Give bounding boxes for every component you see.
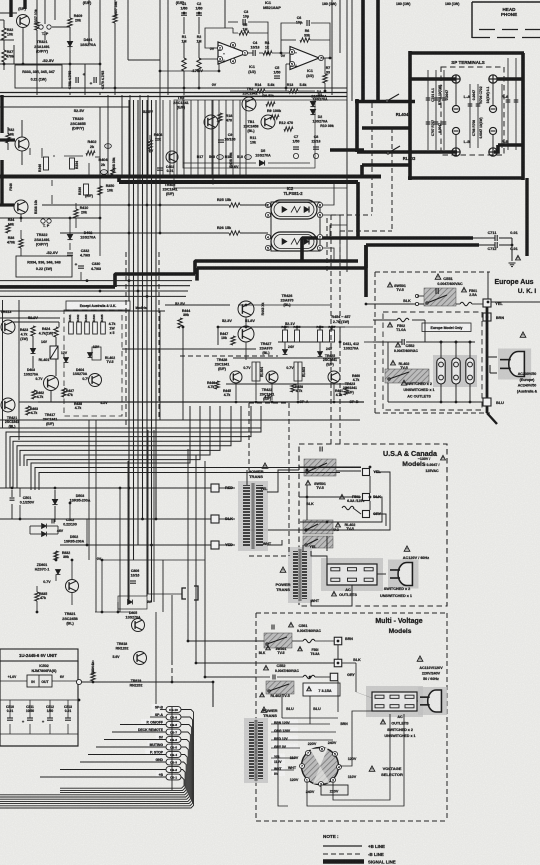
wire xyxy=(333,383,335,400)
wire bus vertical x147 xyxy=(146,100,148,596)
wire outlet 3 return xyxy=(469,384,471,402)
capacitor C551 usa xyxy=(320,447,322,452)
connector pin CB-6 xyxy=(166,737,181,743)
wire xyxy=(256,676,270,678)
warning F501 xyxy=(462,287,467,292)
wire R-B terminal link xyxy=(492,135,494,148)
diode D402 xyxy=(67,234,72,239)
wire hook CB-7 xyxy=(0,732,190,801)
junction xyxy=(128,487,131,490)
wire F502 out xyxy=(412,319,425,321)
junction xyxy=(183,87,186,90)
wire tl x89 xyxy=(88,0,90,45)
label tap YEL xyxy=(272,754,285,759)
resistor R402 xyxy=(86,151,95,155)
capacitor xyxy=(7,718,13,720)
selector pin 7 xyxy=(306,751,311,756)
wire xyxy=(218,64,220,71)
capacitor sp col x508 xyxy=(506,100,511,102)
wire cluster rail y358 xyxy=(233,357,340,359)
wire section divider lower xyxy=(0,96,347,98)
wire xyxy=(321,57,330,59)
wire outlet 2 feed xyxy=(455,342,457,358)
thick left edge bar2 xyxy=(0,160,3,206)
AC outlet europe 2 xyxy=(452,358,460,384)
resistor R336 box xyxy=(84,184,89,195)
wire under R444 xyxy=(182,328,184,420)
wire t2 to outlets xyxy=(311,551,327,564)
wire sp column x516 xyxy=(515,58,517,150)
resistor R38 xyxy=(19,239,23,248)
capacitor C552 xyxy=(402,339,404,345)
speaker terminal L-A - xyxy=(452,105,459,112)
wire xyxy=(183,71,185,95)
wire tap GRY xyxy=(271,747,300,749)
wire outlets feed multi xyxy=(355,663,357,692)
wire RL402 to bottom rail xyxy=(387,383,389,402)
pin 2 xyxy=(317,234,322,239)
warning power trans 3 xyxy=(261,707,267,712)
wire hook CB-10 xyxy=(0,710,194,809)
wire xyxy=(47,533,58,535)
warning C561 xyxy=(289,622,294,627)
wire signal mid bar xyxy=(362,163,410,167)
wire -52.5 rail xyxy=(0,63,60,65)
terminal YEL usa xyxy=(363,469,370,476)
wire v x148 lower xyxy=(147,430,149,594)
wire sp column x436 xyxy=(435,70,437,150)
headphone box left edge xyxy=(471,2,473,38)
wire zener down xyxy=(32,356,34,368)
capacitor C1 xyxy=(181,13,187,15)
junction xyxy=(255,401,258,404)
junction xyxy=(114,87,117,90)
wire xyxy=(70,106,130,108)
transistor TR422 xyxy=(266,371,278,383)
wire vertical x332 xyxy=(331,0,333,95)
dashed -B v x372 xyxy=(371,103,373,215)
relay coil RL404 xyxy=(252,362,260,381)
wire R-B drop xyxy=(494,145,498,152)
resistor R446 xyxy=(215,381,219,389)
switch SW501 contact xyxy=(426,295,447,304)
pin 1 xyxy=(242,50,247,55)
speaker terminal L-B + xyxy=(452,148,460,156)
wire C552 row right xyxy=(406,341,475,343)
wire xyxy=(69,218,71,234)
wire fan Z 8 xyxy=(31,406,190,490)
resistor R834 xyxy=(91,672,95,681)
optocoupler IC2a xyxy=(271,200,317,219)
wire xyxy=(47,525,58,527)
wire RED to T1 xyxy=(219,487,235,489)
resistor R7 xyxy=(323,74,327,83)
diode D503 xyxy=(52,499,57,504)
transistor TR322b xyxy=(14,200,28,214)
test point marks 2 xyxy=(41,219,51,223)
pin 5 xyxy=(265,245,270,250)
switch SW301 block xyxy=(264,633,292,648)
transistor TR423 xyxy=(328,371,340,383)
relay driver dashed box xyxy=(64,310,122,416)
label P. ON/OFF xyxy=(141,719,164,724)
wire t1 wht out xyxy=(267,540,282,545)
wire xyxy=(29,526,31,534)
wire xyxy=(64,155,83,157)
wire xyxy=(319,327,321,330)
junction x12 RED rail xyxy=(11,487,14,490)
selector pin 7 xyxy=(300,764,305,769)
wire to plug a xyxy=(487,356,497,358)
junction xyxy=(469,401,472,404)
SP terminals dashed box xyxy=(441,67,504,155)
wire tl y27b xyxy=(52,26,70,28)
resistor R4 xyxy=(263,51,272,55)
selector pin 3 xyxy=(331,778,336,783)
wire xyxy=(41,148,43,158)
junction xyxy=(159,70,162,73)
junction xyxy=(101,559,104,562)
label tap GRY 0V xyxy=(272,743,298,749)
6V unit header box xyxy=(0,649,78,661)
wire SW501 to F501 xyxy=(456,303,460,305)
wire gry down multi xyxy=(337,681,339,712)
wire R424 to coil xyxy=(55,337,57,346)
diode D401 xyxy=(67,41,72,46)
capacitor sp col x444 xyxy=(442,98,447,100)
wire xyxy=(22,28,24,64)
wire long signal line L2 xyxy=(119,180,358,184)
wire into CB-5 xyxy=(96,746,166,748)
wire xyxy=(19,505,21,519)
power transformer T3 (Multi) xyxy=(244,718,268,783)
Europe models dashed box left xyxy=(374,272,376,413)
transistor TR428 xyxy=(230,371,242,383)
junction xyxy=(146,295,149,298)
wire xyxy=(245,317,247,326)
junction xyxy=(86,279,89,282)
speaker terminal R-A + xyxy=(489,75,497,83)
wire usa yel row xyxy=(299,466,361,468)
wire signal step at x119 xyxy=(117,176,121,182)
wire D503 down xyxy=(54,506,56,522)
wire outlet 1 feed xyxy=(440,342,442,358)
wire xyxy=(69,503,71,519)
wire v x163 xyxy=(162,560,164,612)
resistor R406 xyxy=(148,140,152,149)
warning RL402 multi xyxy=(260,693,265,697)
junction xyxy=(235,401,238,404)
wire xyxy=(36,30,38,95)
dashed -B v x331 xyxy=(330,215,332,444)
voltage selector body xyxy=(302,748,339,785)
wire BRN down xyxy=(337,645,339,659)
wire xyxy=(3,62,5,70)
AC outlets USA xyxy=(321,558,383,591)
wire vertical x100 mid xyxy=(99,107,101,176)
wire long vertical border x347 xyxy=(346,0,348,272)
wire sp column x478 xyxy=(477,84,479,148)
wire signal step x197 xyxy=(195,268,199,281)
transistor TR426 xyxy=(238,301,254,317)
wire v x128 lower xyxy=(127,461,129,602)
wire signal bar to C712 xyxy=(366,243,479,247)
diode D805 xyxy=(128,600,133,605)
wire R26 row xyxy=(60,232,229,234)
test point marks xyxy=(39,25,51,29)
wire usa gry loop xyxy=(374,514,386,526)
wire L-B bar xyxy=(357,150,457,154)
transistor TR402a xyxy=(166,151,178,163)
warning F501 multi xyxy=(298,647,303,651)
wire thick stub TR319 b xyxy=(23,0,26,9)
junction xyxy=(146,204,149,207)
wire BLK feed to SW501 xyxy=(366,303,424,305)
wire cap 30 top xyxy=(29,700,31,718)
junction xyxy=(306,469,309,472)
wire xyxy=(29,148,31,155)
Multi-Voltage dashed box left xyxy=(255,613,257,821)
wire signal bar y274 xyxy=(115,272,195,276)
connector pins europe inlet xyxy=(415,294,418,305)
wire usa rl402 to T2 xyxy=(326,536,328,551)
wire signal line vertical trunk 2 xyxy=(376,0,380,101)
junction xyxy=(369,496,372,499)
resistor R5 xyxy=(239,31,249,35)
wire comb x233 xyxy=(232,100,234,176)
wire 6V down to CB xyxy=(212,682,214,707)
resistor R408 xyxy=(111,168,115,178)
wire to C711 xyxy=(473,237,495,239)
junction xyxy=(71,559,74,562)
label 6V xyxy=(156,734,164,739)
resistor R12 xyxy=(284,127,293,131)
capacitor xyxy=(65,718,71,720)
junction xyxy=(369,466,372,469)
warning C551 usa xyxy=(441,455,446,460)
resistor R334 box xyxy=(70,158,75,169)
wire tap BRN xyxy=(271,723,330,725)
wire x12 to C501 xyxy=(11,490,13,497)
wire YED to T1 xyxy=(219,544,235,546)
wire trans bottom loop xyxy=(278,724,288,806)
wire fan Z 7 xyxy=(27,406,200,466)
terminal YEL xyxy=(483,299,491,307)
wire bus vertical x156 xyxy=(155,100,157,519)
junction xyxy=(329,57,332,60)
wire xyxy=(55,575,57,581)
junction xyxy=(326,521,329,524)
resistor R350 xyxy=(98,186,102,195)
speaker terminal L-B - xyxy=(452,127,459,134)
resistor R25 xyxy=(229,203,240,207)
wire xyxy=(21,151,23,165)
capacitor C501 xyxy=(10,498,15,500)
connector pin CB-4 xyxy=(166,752,181,758)
wire rail y218 xyxy=(0,217,100,219)
wire bus vertical x142.5 xyxy=(142,100,144,519)
wire xyxy=(69,92,71,95)
wire SP bottom bar xyxy=(408,176,524,180)
wire xyxy=(71,560,73,579)
junction xyxy=(455,341,458,344)
dashed -B bus x159 xyxy=(158,252,160,420)
wire reg in xyxy=(0,680,27,682)
wire xyxy=(281,39,296,41)
terminal GRY usa xyxy=(363,511,370,518)
resistor group box R333 xyxy=(15,65,62,88)
wire cap 10 bot xyxy=(9,724,11,734)
wire R834 top xyxy=(92,660,94,672)
wire xyxy=(99,0,101,85)
junction xyxy=(245,304,248,307)
wire outlet 1 return xyxy=(440,384,442,402)
resistor R37 xyxy=(2,50,6,62)
wire xyxy=(245,342,247,360)
resistor R432 box xyxy=(77,322,82,334)
wire fb2 top xyxy=(281,23,303,53)
transistor TR413 xyxy=(1,320,15,334)
junction xyxy=(469,341,472,344)
wire R-A bar xyxy=(497,77,524,81)
wire signal line vertical trunk 1 xyxy=(361,0,365,101)
Multi-Voltage dashed box bottom xyxy=(256,820,447,822)
wire blu to tap xyxy=(309,718,311,724)
relay RL402 block xyxy=(385,369,429,383)
connector pin CB-7 xyxy=(166,729,181,735)
wire to C552 row xyxy=(364,341,373,343)
warning power trans 2 xyxy=(280,567,286,572)
wire 52.1V rail xyxy=(218,326,345,328)
junction xyxy=(150,544,153,547)
selector pin 4 xyxy=(337,765,342,770)
Multi-Voltage dashed box right xyxy=(446,613,448,821)
resistor R409 xyxy=(68,18,72,27)
wire rail y285 xyxy=(0,285,190,287)
warning SW501 xyxy=(388,282,393,287)
wire RL403 coil feed xyxy=(297,362,299,381)
capacitor sp col x516 xyxy=(514,100,519,102)
capacitor C712 xyxy=(495,242,497,248)
wire section divider upper xyxy=(0,92,347,94)
connector pin CB-3 xyxy=(166,759,181,765)
legend +B line sample xyxy=(323,845,362,847)
transistor TR418 xyxy=(89,374,102,387)
relay coil RL401 xyxy=(92,347,101,360)
wire RED rail xyxy=(0,487,211,489)
wire xyxy=(255,381,257,400)
junction xyxy=(187,640,190,643)
resistor R457 box xyxy=(330,330,335,342)
junction xyxy=(22,63,25,66)
wire mains to multi sw xyxy=(188,449,264,641)
junction xyxy=(128,204,131,207)
wire fb2 right xyxy=(311,23,330,58)
wire signal vertical to staircase xyxy=(356,182,360,238)
wire sw to fuse multi xyxy=(292,640,303,642)
transistor TR421 xyxy=(1,398,15,412)
wire tl x14c xyxy=(13,45,15,64)
junction circle IC502 out xyxy=(76,679,81,684)
wire v x19 xyxy=(18,300,20,440)
wire xyxy=(117,602,119,612)
warning RL402 usa xyxy=(336,522,341,527)
capacitor C6 xyxy=(307,20,309,26)
capacitor C8 xyxy=(313,147,319,149)
wire hook CB-5 xyxy=(0,747,188,797)
wire sp column x444 xyxy=(443,70,445,150)
wire mains to multi gry xyxy=(205,461,256,677)
wire R834 bottom xyxy=(92,681,94,682)
terminal BRN xyxy=(483,313,491,321)
wire signal step x302 xyxy=(300,238,304,261)
wire caps bottom rail xyxy=(0,733,78,735)
wire BLK to T1 xyxy=(219,518,235,520)
fuse T3.15A xyxy=(303,675,315,678)
junction xyxy=(171,681,174,684)
wire xyxy=(277,676,303,678)
junction xyxy=(284,326,287,329)
wire left stub 2 xyxy=(0,39,14,41)
capacitor C4 xyxy=(253,50,255,56)
resistor R832 xyxy=(54,551,58,560)
wire fan Z 5 xyxy=(20,406,220,466)
wire xyxy=(95,156,100,158)
wire 6V out rail xyxy=(82,681,213,683)
wire sp column x508 xyxy=(507,58,509,150)
resistor R434 box xyxy=(93,322,98,334)
junction xyxy=(324,90,327,93)
capacitor C502 xyxy=(52,519,54,524)
wire signal bar y287 xyxy=(0,285,115,289)
wire xyxy=(198,8,200,9)
warning power trans 1 xyxy=(262,463,268,468)
wire F501 to YEL term xyxy=(472,303,483,305)
fuse F501 usa xyxy=(342,506,354,509)
wire into CB-7 xyxy=(112,731,166,733)
op-amp IC1 (1/2) xyxy=(218,42,247,64)
junction xyxy=(198,12,201,15)
relay RL402 multi block xyxy=(266,681,294,694)
transistor TR1 xyxy=(261,115,275,129)
wire branch bottom rail xyxy=(19,401,59,403)
junction xyxy=(119,487,122,490)
wire t2 wht return xyxy=(311,585,352,606)
warning C552 xyxy=(396,342,401,347)
discrete stage outer box xyxy=(174,100,347,188)
terminal BRN multi xyxy=(334,637,342,645)
wire xyxy=(210,58,218,60)
fuse F502 xyxy=(397,318,409,321)
capacitor C402 xyxy=(157,168,163,170)
wire xyxy=(20,214,22,222)
wire v x59 xyxy=(58,322,60,327)
wire outlet 3 feed xyxy=(469,342,471,358)
resistor R462 xyxy=(32,390,36,399)
resistor R463 xyxy=(26,406,30,415)
resistor R26 xyxy=(229,231,240,235)
resistor R437 xyxy=(62,388,66,397)
wire R-A terminal link xyxy=(492,83,494,105)
junction xyxy=(141,518,144,521)
capacitor sp col x428 b xyxy=(426,122,431,124)
dashed -B v x340 xyxy=(339,231,341,444)
wire xyxy=(319,342,321,351)
capacitor xyxy=(47,718,53,720)
wire fb1 top xyxy=(205,28,233,48)
wire signal x366 upper xyxy=(364,245,368,268)
wire v x120 lower xyxy=(119,488,121,612)
